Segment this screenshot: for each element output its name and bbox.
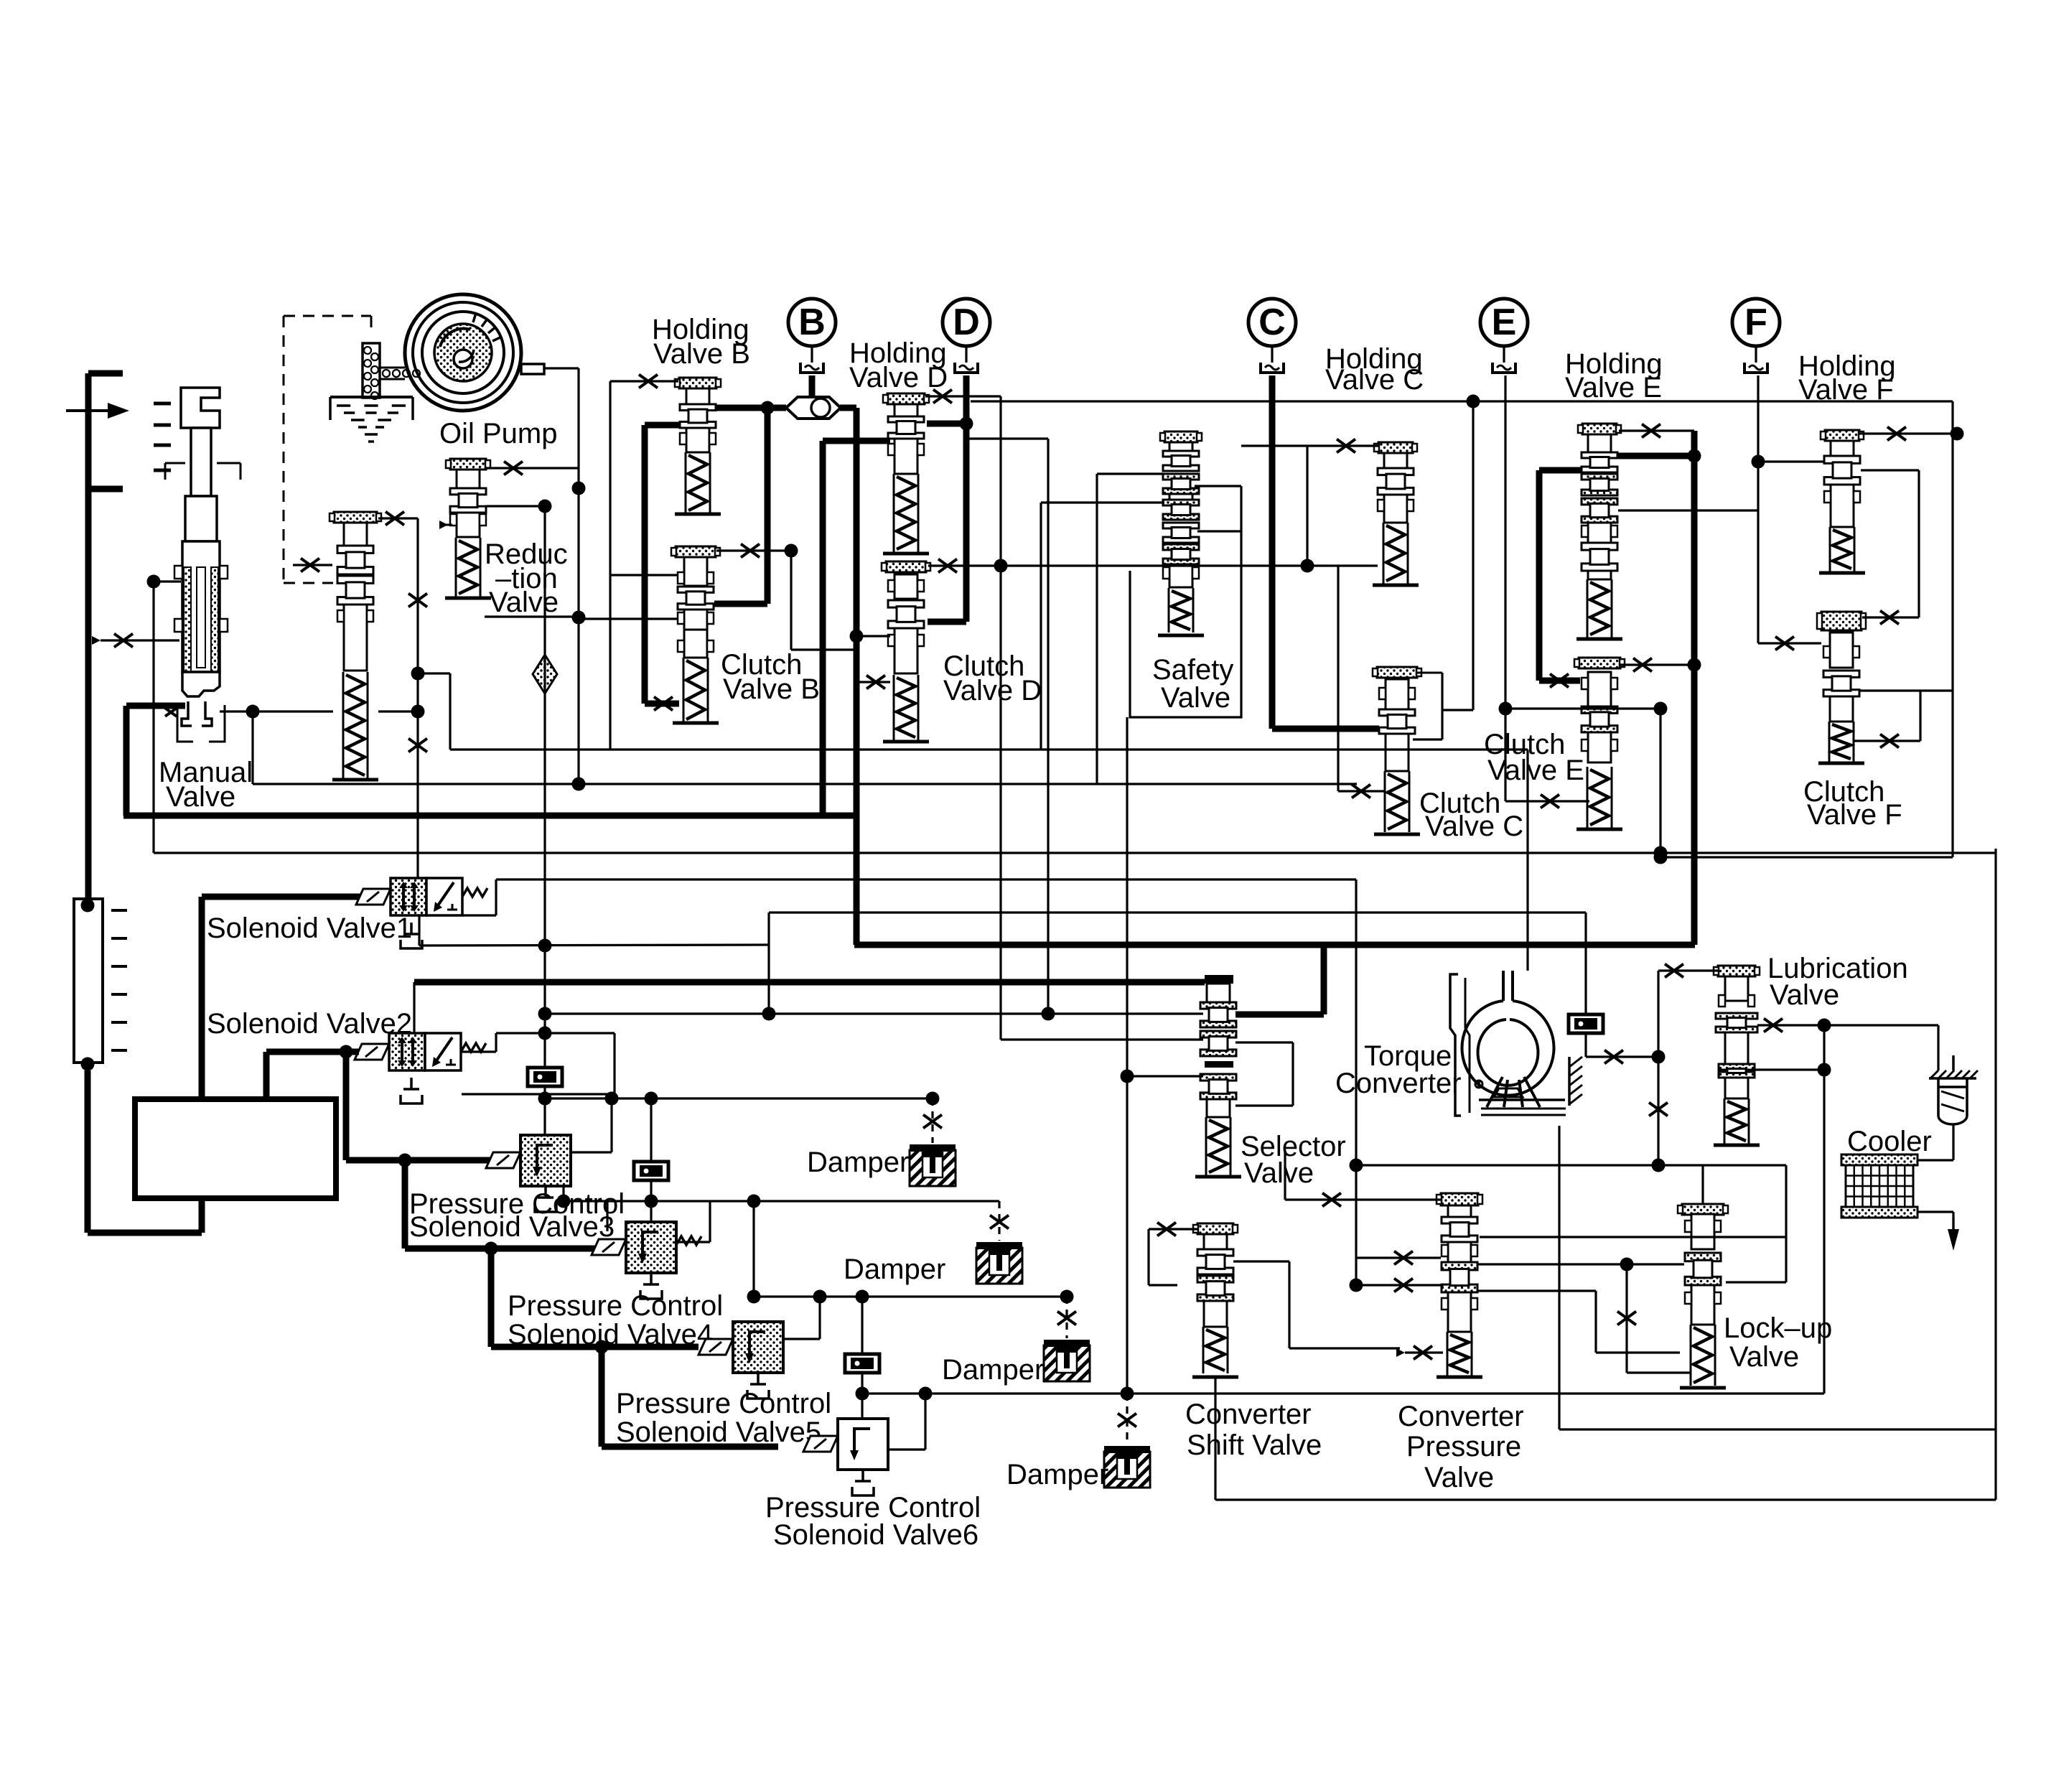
clutch F land right <box>1859 689 1953 691</box>
svg-text:Solenoid Valve1: Solenoid Valve1 <box>207 913 412 944</box>
TC feed via check <box>1584 913 1587 1014</box>
svg-text:Oil Pump: Oil Pump <box>439 418 558 449</box>
shuttle output down <box>840 405 856 411</box>
pump outlet <box>521 364 544 374</box>
svg-text:Cooler: Cooler <box>1847 1126 1932 1157</box>
svg-text:Valve C: Valve C <box>1425 811 1523 842</box>
conv shift valve wires <box>1149 1228 1197 1230</box>
lock-up valve <box>1682 1204 1724 1215</box>
safety valve left inputs <box>1097 472 1164 475</box>
clutch D cap line long <box>928 564 1378 566</box>
circled letter E <box>1480 299 1528 346</box>
reduction valve cap orifice line <box>486 467 579 469</box>
SV1 pilot line <box>416 518 419 878</box>
svg-text:Valve D: Valve D <box>849 362 948 393</box>
oil pan <box>330 396 413 398</box>
TC bottom drop <box>1558 1126 1560 1429</box>
svg-text:Solenoid Valve4: Solenoid Valve4 <box>508 1319 713 1350</box>
manual valve drain stub <box>101 639 179 641</box>
manual valve detent dashes <box>154 402 171 406</box>
manual valve input dot line <box>147 575 161 589</box>
thick main line y1136 <box>123 813 854 819</box>
svg-text:Solenoid Valve3: Solenoid Valve3 <box>409 1211 615 1243</box>
unnamed valve next to manual valve (throttle) <box>334 512 377 523</box>
check valve icon 2 <box>634 1162 668 1180</box>
holding valve B <box>679 378 716 388</box>
safety valve <box>1164 431 1197 442</box>
svg-text:Shift Valve: Shift Valve <box>1187 1429 1322 1461</box>
check valve icon 3 <box>845 1354 879 1373</box>
PCSV3 right loop <box>571 1151 612 1153</box>
pump outlet column <box>577 368 579 784</box>
check valve icon 1 <box>528 1068 562 1086</box>
svg-text:Pressure Control: Pressure Control <box>616 1388 831 1419</box>
svg-text:Valve F: Valve F <box>1807 799 1902 831</box>
long line y1273 <box>769 911 1586 913</box>
wire box tap <box>199 1198 205 1233</box>
holding valve C <box>1378 442 1413 453</box>
holding B / clutch B loop thick <box>645 422 679 429</box>
port F <box>1744 363 1767 373</box>
CPV second right line <box>1478 1289 1596 1292</box>
svg-text:Lock–up: Lock–up <box>1724 1312 1832 1344</box>
damper 1 <box>910 1150 956 1186</box>
line down to TC <box>1526 750 1528 971</box>
cooler <box>1841 1154 1917 1165</box>
wire SV1 feed <box>202 894 368 900</box>
svg-text:Pressure Control: Pressure Control <box>508 1290 723 1322</box>
selector right thin <box>1235 1041 1293 1043</box>
svg-text:Safety: Safety <box>1152 654 1233 686</box>
clutch valve B <box>676 546 716 557</box>
PCSV4 right loop <box>676 1241 710 1243</box>
holding F cap line <box>1859 432 1953 434</box>
pressure control solenoid valve 6 <box>838 1419 888 1470</box>
PCSV5 right loop <box>783 1338 820 1340</box>
holding B out to shuttle <box>716 405 786 411</box>
line y1229 to x1889 <box>1355 879 1357 1285</box>
safety valve right to box <box>1197 530 1241 532</box>
clutch C right line <box>1413 738 1442 740</box>
long line y1182 <box>154 851 1996 854</box>
wire supply bottom <box>88 1230 202 1236</box>
holding B cap line <box>610 380 678 382</box>
D circle feed <box>963 375 970 622</box>
wire SV1 feed limb <box>199 897 205 1099</box>
F circle feed <box>1757 375 1759 643</box>
damper3 line <box>752 1201 755 1297</box>
svg-text:Valve C: Valve C <box>1325 364 1424 396</box>
svg-text:Damper: Damper <box>807 1147 909 1178</box>
damper 4 <box>1104 1452 1150 1488</box>
cooler inlet filter <box>1930 1070 1938 1078</box>
clutch F cap X line <box>1862 616 1919 618</box>
clutch C cap stub <box>1417 672 1442 674</box>
lubrication outputs <box>1757 1024 1938 1026</box>
check valve icon TC <box>1569 1014 1603 1033</box>
converter pressure valve <box>1441 1193 1478 1205</box>
damper feed line y1530 <box>545 1097 933 1099</box>
y559 long line <box>971 400 1953 402</box>
port E <box>1493 363 1515 373</box>
shuttle valve between B and D <box>786 397 841 419</box>
selector right thick <box>1235 1012 1324 1018</box>
outer right line <box>1994 849 1996 1500</box>
clutch E bottom stub <box>1504 709 1506 801</box>
damper 3 <box>1044 1345 1090 1381</box>
reduction valve left arrow stub <box>439 524 452 526</box>
CPV left stubs <box>1356 1256 1441 1259</box>
svg-text:Valve B: Valve B <box>723 673 820 705</box>
damper 2 <box>976 1248 1022 1284</box>
solenoid valve 2 <box>389 1033 425 1070</box>
PCSV6 right loop <box>889 1448 925 1450</box>
CPV land1 right line <box>1480 1236 1786 1238</box>
PCSV6 feed column <box>861 1297 863 1354</box>
manual valve to throttle valve line <box>220 710 333 712</box>
svg-text:Valve: Valve <box>1770 979 1839 1011</box>
svg-text:Solenoid Valve2: Solenoid Valve2 <box>207 1008 412 1040</box>
holding F land right loop <box>1861 469 1919 471</box>
svg-text:Valve: Valve <box>1729 1341 1799 1373</box>
B circle into shuttle <box>809 375 816 397</box>
svg-text:Valve E: Valve E <box>1487 755 1584 786</box>
svg-text:Valve E: Valve E <box>1565 372 1662 403</box>
svg-text:Damper: Damper <box>1006 1459 1108 1490</box>
clutch B cap line <box>716 549 791 551</box>
clutch valve E <box>1579 658 1620 668</box>
holding valve E <box>1582 424 1617 434</box>
dashed pilot box <box>284 315 371 317</box>
CPV bottom stub <box>1405 1351 1443 1353</box>
arrow into manual valve detents <box>66 409 108 412</box>
reduction valve <box>450 459 486 470</box>
manual valve bottom thick <box>126 703 185 709</box>
holding valve D <box>887 393 925 404</box>
svg-text:Damper: Damper <box>942 1354 1044 1386</box>
cooler outlet arrow <box>1948 1229 1959 1251</box>
svg-text:Converter: Converter <box>1185 1399 1312 1430</box>
torque converter <box>1450 971 1566 1116</box>
CPV to lockup <box>1478 1263 1684 1265</box>
clutch F spring X loop <box>1919 691 1921 741</box>
damper 1 <box>926 1092 940 1106</box>
throttle valve left stub <box>293 564 332 566</box>
thick line y1316 <box>854 942 1695 948</box>
svg-text:Pressure: Pressure <box>1406 1431 1521 1462</box>
clutch C bottom stub <box>1337 566 1339 791</box>
holding E area <box>1619 429 1694 431</box>
holding D land right thin <box>969 437 1048 439</box>
thick selector feed y1368 <box>414 979 1205 986</box>
pressure control solenoid valve 3 <box>520 1135 571 1186</box>
svg-text:Solenoid Valve5: Solenoid Valve5 <box>616 1417 821 1448</box>
holding D cap orifice line <box>925 395 1001 397</box>
holding D land1 left feed <box>823 438 890 444</box>
port C <box>1261 363 1284 373</box>
SV1 output loop <box>418 915 420 946</box>
feed column x759 <box>543 506 546 1068</box>
svg-text:Damper: Damper <box>844 1254 945 1285</box>
lubrication valve <box>1718 966 1755 976</box>
reduction valve outputs <box>486 505 545 507</box>
circled letter D <box>943 299 990 346</box>
clutch E cap line <box>1620 663 1694 666</box>
lock-up box <box>1357 1164 1786 1166</box>
solenoid valve 1 <box>391 878 426 915</box>
svg-text:Valve: Valve <box>166 781 235 813</box>
holding C cap line <box>1307 444 1378 447</box>
clutch valve D <box>886 561 926 572</box>
damper2 line <box>651 1200 999 1202</box>
svg-text:B: B <box>798 302 826 343</box>
pump suction strainer <box>363 343 380 398</box>
svg-text:Valve B: Valve B <box>653 338 750 370</box>
converter shift valve <box>1197 1223 1233 1234</box>
svg-text:D: D <box>953 302 980 343</box>
safety to holding C <box>1195 485 1241 487</box>
wire supply down <box>85 1070 91 1233</box>
holding valve F <box>1825 430 1859 441</box>
svg-text:Valve: Valve <box>1424 1462 1494 1493</box>
throttle valve cap orifice to pilot column <box>378 517 418 519</box>
clutch D bottom stub <box>856 681 890 683</box>
long line y1229 <box>496 878 1356 880</box>
svg-text:F: F <box>1744 302 1767 343</box>
lubrication feed column <box>1657 971 1659 1165</box>
C circle feed <box>1269 375 1276 729</box>
lower strainer <box>74 899 103 1063</box>
SV2 pilot <box>413 982 415 1033</box>
circled letter F <box>1732 299 1780 346</box>
right box edges <box>1951 401 1953 857</box>
CPV cap lines <box>1285 1198 1441 1200</box>
PCSV4 feed column <box>650 1098 652 1162</box>
svg-text:Valve: Valve <box>489 587 559 618</box>
svg-text:Valve D: Valve D <box>943 675 1042 706</box>
selector valve <box>1205 975 1233 984</box>
selector lines <box>545 1012 1203 1014</box>
long line y1090 <box>253 783 1357 785</box>
port B <box>800 363 823 373</box>
damper4 line y1941 <box>862 1392 1824 1394</box>
circled letter C <box>1248 299 1296 346</box>
svg-text:C: C <box>1258 302 1286 343</box>
E circle feed <box>1504 375 1506 709</box>
pressure control solenoid valve 5 <box>733 1322 783 1373</box>
manual valve <box>181 388 220 428</box>
long line y1044 <box>450 748 1528 750</box>
svg-text:Converter: Converter <box>1398 1401 1524 1432</box>
supply line left vertical <box>85 373 92 905</box>
clutch valve C <box>1377 667 1417 678</box>
cooler pipes <box>1952 1124 1954 1160</box>
svg-text:Valve: Valve <box>1244 1157 1314 1189</box>
SV2 feed wires <box>340 1045 353 1059</box>
pressure control solenoid valve 4 <box>626 1222 676 1273</box>
suction pipe circles <box>383 370 390 377</box>
controller box <box>135 1099 336 1198</box>
svg-text:Converter: Converter <box>1335 1068 1462 1099</box>
port D <box>955 363 978 373</box>
hatch wall right of TC <box>1569 1057 1582 1067</box>
svg-text:Solenoid Valve6: Solenoid Valve6 <box>773 1519 978 1551</box>
svg-text:Valve: Valve <box>1161 682 1230 714</box>
svg-text:E: E <box>1492 302 1517 343</box>
clutch valve F <box>1821 612 1862 630</box>
safety valve box <box>1130 486 1241 717</box>
oil pump <box>405 294 521 411</box>
circled letter B <box>788 299 836 346</box>
clutch F cap feed <box>1758 642 1821 644</box>
SV2 output loop <box>462 1050 496 1053</box>
diamond filter <box>533 655 557 694</box>
